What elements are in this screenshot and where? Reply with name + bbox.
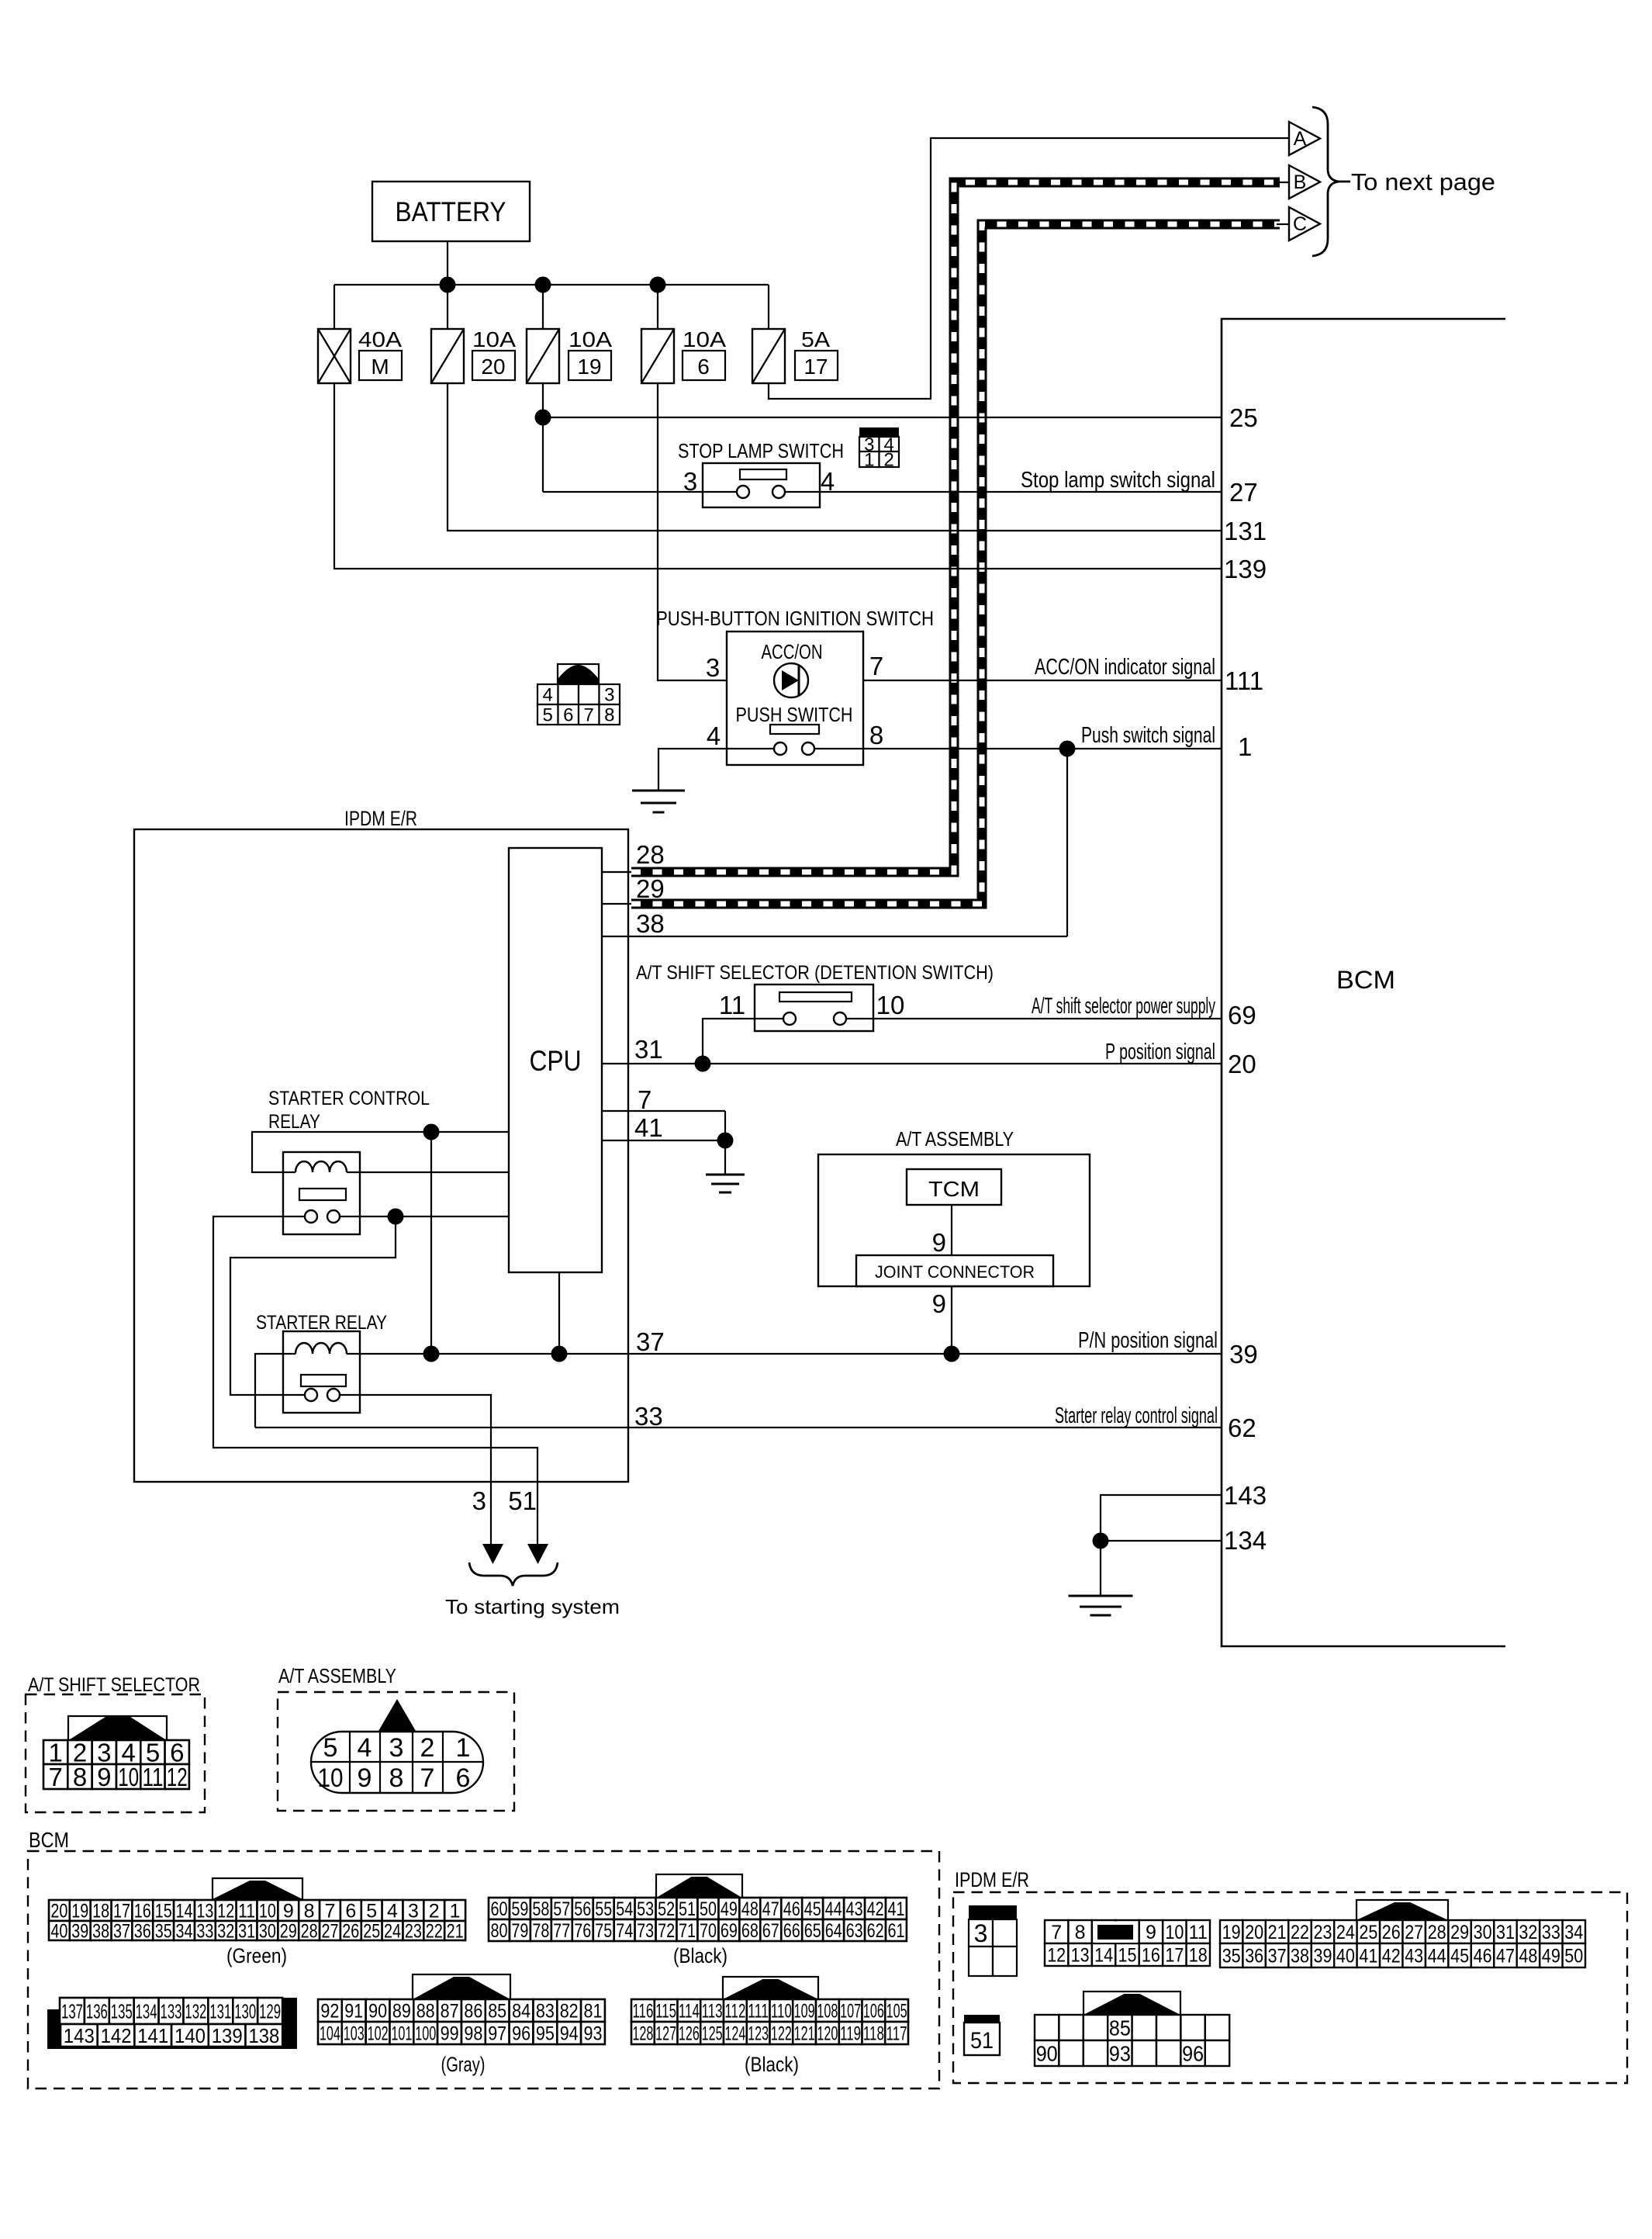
wire contact to starter relay contact (230, 1216, 396, 1395)
wire battery bus (334, 284, 769, 285)
svg-text:128: 128 (632, 2023, 653, 2045)
svg-text:(Green): (Green) (226, 1944, 287, 1967)
svg-text:5: 5 (323, 1733, 338, 1763)
svg-text:65: 65 (804, 1920, 821, 1942)
svg-text:9: 9 (358, 1763, 372, 1793)
svg-text:29: 29 (1450, 1922, 1469, 1943)
svg-text:RELAY: RELAY (268, 1111, 320, 1133)
BCM box (1222, 319, 1505, 1646)
svg-text:3: 3 (389, 1733, 404, 1763)
svg-text:1: 1 (456, 1733, 471, 1763)
svg-text:17: 17 (1165, 1945, 1184, 1967)
svg-text:58: 58 (532, 1898, 549, 1920)
svg-text:36: 36 (134, 1921, 151, 1943)
brace to starting system (469, 1562, 558, 1586)
svg-text:A/T ASSEMBLY: A/T ASSEMBLY (278, 1664, 396, 1687)
svg-text:JOINT CONNECTOR: JOINT CONNECTOR (875, 1262, 1035, 1282)
svg-text:36: 36 (1245, 1946, 1263, 1967)
svg-text:4: 4 (387, 1901, 398, 1922)
svg-text:54: 54 (616, 1898, 633, 1920)
svg-text:7: 7 (49, 1763, 63, 1791)
svg-text:93: 93 (584, 2023, 603, 2045)
svg-text:31: 31 (238, 1921, 255, 1943)
svg-text:A/T SHIFT SELECTOR (DETENTION: A/T SHIFT SELECTOR (DETENTION SWITCH) (636, 962, 994, 984)
svg-text:39: 39 (1314, 1946, 1332, 1967)
svg-text:10: 10 (259, 1901, 276, 1922)
wire joint connector pin 9 to wire 37 (951, 1286, 952, 1354)
svg-text:Starter relay control signal: Starter relay control signal (1055, 1403, 1218, 1428)
svg-text:106: 106 (863, 2001, 884, 2023)
svg-text:38: 38 (636, 909, 665, 938)
TCM box (907, 1169, 1001, 1205)
junction dot P position wire (695, 1056, 711, 1072)
svg-text:115: 115 (655, 2001, 676, 2023)
svg-text:37: 37 (1268, 1946, 1287, 1967)
svg-text:40: 40 (50, 1921, 67, 1943)
svg-text:19: 19 (577, 355, 601, 379)
wire fuse 17 to triangle A (769, 138, 1289, 399)
svg-text:25: 25 (1229, 403, 1258, 432)
svg-text:P position signal: P position signal (1105, 1040, 1215, 1064)
svg-text:139: 139 (1224, 555, 1267, 583)
svg-text:29: 29 (280, 1921, 297, 1943)
svg-text:18: 18 (92, 1901, 109, 1922)
svg-text:63: 63 (846, 1920, 863, 1942)
svg-text:BCM: BCM (29, 1828, 69, 1852)
svg-text:9: 9 (283, 1901, 294, 1922)
svg-text:22: 22 (1291, 1922, 1309, 1943)
svg-text:3: 3 (604, 685, 614, 706)
svg-text:118: 118 (863, 2023, 884, 2045)
svg-text:46: 46 (1474, 1946, 1492, 1967)
wire coil left to CPU (252, 1132, 509, 1172)
svg-text:124: 124 (724, 2023, 745, 2045)
svg-text:32: 32 (1519, 1922, 1537, 1943)
svg-text:(Black): (Black) (745, 2053, 799, 2076)
svg-text:28: 28 (1428, 1922, 1446, 1943)
wire fuse19 to stop lamp switch pin 3 (543, 491, 703, 493)
svg-text:113: 113 (702, 2001, 723, 2023)
svg-text:37: 37 (636, 1327, 665, 1356)
svg-text:85: 85 (488, 2001, 506, 2023)
wire fuse M to BCM pin 139 (334, 383, 1222, 569)
svg-text:64: 64 (825, 1920, 842, 1942)
svg-text:25: 25 (1359, 1922, 1377, 1943)
svg-text:40: 40 (1336, 1946, 1355, 1967)
svg-text:55: 55 (595, 1898, 612, 1920)
svg-text:To starting system: To starting system (445, 1595, 620, 1618)
svg-text:130: 130 (234, 1999, 256, 2023)
svg-text:62: 62 (1228, 1414, 1256, 1442)
svg-text:95: 95 (536, 2023, 555, 2045)
svg-text:7: 7 (325, 1901, 336, 1922)
svg-text:3: 3 (683, 467, 697, 496)
svg-text:75: 75 (595, 1920, 612, 1942)
svg-text:10A: 10A (569, 327, 612, 351)
svg-text:96: 96 (512, 2023, 531, 2045)
svg-text:25: 25 (363, 1921, 380, 1943)
svg-text:11: 11 (238, 1901, 255, 1922)
connector keyway triangle (378, 1699, 416, 1731)
svg-text:33: 33 (196, 1921, 213, 1943)
svg-text:28: 28 (636, 840, 665, 869)
svg-text:8: 8 (604, 705, 614, 726)
junction dot 7/41 (717, 1133, 734, 1149)
svg-text:5: 5 (366, 1901, 377, 1922)
svg-text:143: 143 (1224, 1481, 1267, 1510)
push switch contact bar (770, 725, 819, 734)
junction dot fuse19/pin25 (535, 410, 551, 426)
A/T assembly connector stadium (311, 1732, 483, 1793)
svg-text:41: 41 (634, 1113, 663, 1142)
wire bus to fuse 19 (542, 285, 544, 329)
svg-text:B: B (1294, 171, 1307, 193)
ground IPDM logic (706, 1174, 745, 1176)
svg-text:62: 62 (867, 1920, 884, 1942)
svg-text:66: 66 (783, 1920, 800, 1942)
svg-text:TCM: TCM (928, 1177, 980, 1201)
svg-text:8: 8 (869, 721, 883, 749)
svg-text:100: 100 (415, 2023, 436, 2045)
svg-text:137: 137 (61, 1999, 83, 2023)
svg-text:48: 48 (1519, 1946, 1537, 1967)
svg-text:49: 49 (721, 1898, 738, 1920)
svg-text:111: 111 (748, 2001, 769, 2023)
connector M101 ignition switch (558, 664, 599, 684)
IPDM connector 19-50 keyway (1357, 1900, 1448, 1920)
svg-text:33: 33 (634, 1402, 663, 1431)
svg-text:72: 72 (658, 1920, 675, 1942)
svg-text:44: 44 (1428, 1946, 1446, 1967)
svg-text:94: 94 (560, 2023, 579, 2045)
svg-text:15: 15 (1118, 1945, 1137, 1967)
BCM gray connector keyway (413, 1974, 510, 1999)
svg-text:29: 29 (636, 874, 665, 903)
wire BCM 134 to ground (1101, 1540, 1222, 1542)
ground BCM (1069, 1595, 1133, 1597)
wire coil right to CPU (347, 1171, 509, 1173)
wire stop lamp internal left (703, 491, 743, 493)
svg-text:99: 99 (441, 2023, 459, 2045)
IPDM pin 41 wire (602, 1140, 725, 1141)
svg-text:11: 11 (143, 1763, 164, 1791)
ACC/ON indicator diode (774, 663, 808, 697)
svg-text:35: 35 (155, 1921, 172, 1943)
detention switch contacts (783, 1012, 796, 1025)
svg-text:To next page: To next page (1351, 168, 1495, 196)
svg-text:86: 86 (464, 2001, 482, 2023)
starter control relay contacts (305, 1210, 317, 1223)
svg-text:16: 16 (134, 1901, 151, 1922)
push switch contacts (774, 742, 786, 755)
starter control relay coil (295, 1161, 347, 1172)
svg-text:1: 1 (864, 450, 874, 471)
svg-text:31: 31 (1496, 1922, 1515, 1943)
svg-text:13: 13 (196, 1901, 213, 1922)
svg-text:12: 12 (1047, 1945, 1066, 1967)
svg-text:2: 2 (884, 450, 894, 471)
svg-text:8: 8 (389, 1763, 404, 1793)
wire 33/62 starter relay control (255, 1427, 1222, 1428)
junction dot bus-fuse20 (440, 277, 456, 293)
svg-text:43: 43 (1405, 1946, 1423, 1967)
svg-text:10: 10 (118, 1763, 139, 1791)
starter relay armature (301, 1375, 346, 1386)
wire fuse 20 to BCM pin 131 (448, 383, 1222, 531)
svg-text:51: 51 (679, 1898, 696, 1920)
wire junction A to wire 37 (430, 1132, 432, 1354)
wire bus to fuse 20 (447, 285, 448, 329)
svg-text:49: 49 (1542, 1946, 1560, 1967)
svg-text:76: 76 (574, 1920, 591, 1942)
svg-text:3: 3 (706, 653, 720, 682)
wire ignition 8 to BCM 1 (808, 748, 1222, 749)
svg-text:143: 143 (64, 2024, 95, 2047)
fuse 5A 17 (752, 329, 785, 383)
svg-text:28: 28 (301, 1921, 318, 1943)
wire TCM to joint connector pin 9 (951, 1205, 952, 1255)
svg-text:12: 12 (167, 1763, 188, 1791)
svg-text:90: 90 (1036, 2042, 1058, 2066)
svg-text:7: 7 (869, 652, 883, 680)
svg-text:CPU: CPU (530, 1045, 582, 1077)
svg-text:38: 38 (1291, 1946, 1309, 1967)
svg-text:92: 92 (320, 2001, 339, 2023)
svg-text:68: 68 (741, 1920, 759, 1942)
svg-text:45: 45 (804, 1898, 821, 1920)
svg-text:STOP LAMP SWITCH: STOP LAMP SWITCH (678, 439, 844, 462)
svg-text:109: 109 (794, 2001, 815, 2023)
svg-text:139: 139 (212, 2024, 243, 2047)
svg-text:67: 67 (762, 1920, 779, 1942)
svg-text:107: 107 (840, 2001, 861, 2023)
svg-text:22: 22 (426, 1921, 443, 1943)
wire ignition 7 to BCM 111 (863, 680, 1222, 681)
svg-text:60: 60 (491, 1898, 508, 1920)
svg-text:17: 17 (113, 1901, 130, 1922)
svg-text:5A: 5A (801, 327, 830, 351)
IPDM pin 7 wire (602, 1110, 725, 1112)
svg-text:Push switch signal: Push switch signal (1081, 723, 1215, 748)
svg-text:91: 91 (344, 2001, 363, 2023)
svg-text:136: 136 (86, 1999, 108, 2023)
connector grid stop lamp switch 3-4/1-2 (859, 427, 899, 437)
wire ignition 4 internal (727, 748, 780, 749)
svg-text:32: 32 (217, 1921, 234, 1943)
svg-text:88: 88 (416, 2001, 435, 2023)
svg-text:111: 111 (1225, 666, 1263, 695)
svg-text:133: 133 (161, 1999, 182, 2023)
svg-text:126: 126 (679, 2023, 700, 2045)
svg-text:138: 138 (248, 2024, 279, 2047)
triangle connector C (1289, 207, 1320, 241)
wire down to ground (1100, 1541, 1101, 1596)
IPDM pin 38 wire (602, 936, 1067, 937)
svg-text:A/T SHIFT SELECTOR: A/T SHIFT SELECTOR (28, 1674, 200, 1696)
svg-text:59: 59 (511, 1898, 528, 1920)
wire fuse 19 down (542, 383, 544, 492)
BCM black connector keyway (656, 1874, 742, 1898)
svg-text:101: 101 (391, 2023, 412, 2045)
svg-text:8: 8 (304, 1901, 315, 1922)
wire bus to fuse M (334, 285, 335, 329)
wire stop lamp switch to BCM pin 27 (779, 491, 1222, 493)
svg-text:PUSH-BUTTON IGNITION SWITCH: PUSH-BUTTON IGNITION SWITCH (656, 607, 934, 630)
svg-text:ACC/ON indicator signal: ACC/ON indicator signal (1035, 655, 1215, 680)
checkered wire C (IPDM 29 to next page) (631, 224, 1280, 904)
wire detention 10 to BCM 69 (840, 1018, 1222, 1019)
wire bus to fuse 6 (657, 285, 658, 329)
IPDM connector 7-18 (1045, 1920, 1068, 1943)
svg-text:104: 104 (320, 2023, 340, 2045)
svg-text:51: 51 (970, 2028, 994, 2054)
svg-text:23: 23 (405, 1921, 422, 1943)
svg-text:BATTERY: BATTERY (396, 197, 506, 227)
svg-text:21: 21 (447, 1921, 464, 1943)
svg-text:8: 8 (1075, 1922, 1086, 1943)
svg-text:IPDM E/R: IPDM E/R (344, 807, 417, 830)
triangle connector A (1289, 122, 1320, 155)
svg-text:35: 35 (1222, 1946, 1241, 1967)
CPU box (509, 848, 602, 1272)
svg-text:21: 21 (1268, 1922, 1287, 1943)
svg-text:12: 12 (217, 1901, 234, 1922)
svg-text:53: 53 (637, 1898, 654, 1920)
svg-text:19: 19 (71, 1901, 88, 1922)
junction dot bus-fuse19 (535, 277, 551, 293)
svg-text:41: 41 (1359, 1946, 1377, 1967)
svg-text:8: 8 (73, 1763, 87, 1791)
svg-text:134: 134 (1224, 1526, 1267, 1555)
svg-text:14: 14 (1094, 1945, 1113, 1967)
svg-text:30: 30 (259, 1921, 276, 1943)
svg-text:116: 116 (632, 2001, 653, 2023)
svg-text:37: 37 (113, 1921, 130, 1943)
checkered wire B (IPDM 28 to next page) (631, 182, 1280, 872)
svg-text:4: 4 (358, 1733, 372, 1763)
svg-text:19: 19 (1222, 1922, 1241, 1943)
svg-text:31: 31 (634, 1035, 663, 1064)
svg-text:73: 73 (637, 1920, 654, 1942)
junction dot bus-fuse6 (650, 277, 666, 293)
svg-text:14: 14 (176, 1901, 193, 1922)
svg-text:57: 57 (553, 1898, 570, 1920)
svg-text:114: 114 (679, 2001, 700, 2023)
svg-text:24: 24 (1336, 1922, 1355, 1943)
svg-text:129: 129 (259, 1999, 281, 2023)
svg-text:9: 9 (1146, 1922, 1156, 1943)
svg-text:103: 103 (344, 2023, 365, 2045)
svg-text:102: 102 (368, 2023, 389, 2045)
wire 7/41 join (724, 1111, 726, 1140)
wire dot to IPDM 38 (1066, 749, 1068, 936)
svg-text:69: 69 (721, 1920, 738, 1942)
wire battery to bus (447, 241, 448, 285)
wire stub into triangle B (1277, 182, 1289, 183)
junction dot coil drive wire (423, 1124, 440, 1140)
fusible link 40A M (318, 329, 351, 383)
starter relay coil (295, 1343, 347, 1354)
fuse 10A 20 (431, 329, 464, 383)
svg-text:51: 51 (508, 1486, 537, 1515)
svg-text:BCM: BCM (1336, 966, 1395, 994)
svg-text:84: 84 (512, 2001, 531, 2023)
svg-text:7: 7 (638, 1085, 651, 1114)
IPDM pin 29 stub (602, 903, 631, 905)
svg-text:3: 3 (472, 1486, 486, 1515)
starter relay contacts (305, 1389, 317, 1401)
svg-text:6: 6 (563, 705, 573, 726)
svg-text:10: 10 (876, 991, 905, 1019)
svg-text:(Gray): (Gray) (441, 2053, 486, 2076)
junction dot 37 b (551, 1346, 568, 1362)
IPDM connector 51 (964, 2015, 1000, 2023)
svg-text:6: 6 (345, 1901, 356, 1922)
wire contact left to output 51 (213, 1216, 537, 1545)
svg-text:80: 80 (491, 1920, 508, 1942)
svg-text:81: 81 (584, 2001, 603, 2023)
svg-text:141: 141 (137, 2024, 168, 2047)
battery (372, 182, 530, 241)
svg-text:M: M (371, 355, 389, 379)
wire detention 11 to P position wire (703, 1019, 790, 1064)
svg-text:20: 20 (481, 355, 505, 379)
svg-text:77: 77 (553, 1920, 570, 1942)
svg-text:33: 33 (1542, 1922, 1560, 1943)
svg-text:135: 135 (111, 1999, 133, 2023)
svg-text:17: 17 (804, 355, 828, 379)
svg-text:85: 85 (1109, 2016, 1131, 2040)
svg-text:125: 125 (702, 2023, 723, 2045)
fuse 10A 19 (527, 329, 559, 383)
svg-text:98: 98 (464, 2023, 482, 2045)
svg-text:27: 27 (322, 1921, 339, 1943)
svg-text:26: 26 (342, 1921, 359, 1943)
arrow output 3 (482, 1544, 503, 1564)
svg-text:10A: 10A (683, 327, 726, 351)
svg-text:79: 79 (511, 1920, 528, 1942)
svg-text:112: 112 (724, 2001, 745, 2023)
svg-text:142: 142 (101, 2024, 132, 2047)
junction dot P/N position (944, 1346, 960, 1362)
BCM black connector M19 (489, 1898, 510, 1919)
IPDM starter relay connector keyway (1083, 1992, 1180, 2015)
wire 37 P/N position (347, 1353, 1222, 1355)
svg-text:97: 97 (488, 2023, 506, 2045)
svg-text:9: 9 (97, 1763, 111, 1791)
svg-text:89: 89 (392, 2001, 411, 2023)
svg-text:121: 121 (794, 2023, 815, 2045)
svg-text:78: 78 (532, 1920, 549, 1942)
svg-text:1: 1 (1238, 732, 1252, 761)
svg-text:(Black): (Black) (673, 1944, 728, 1967)
svg-text:2: 2 (420, 1733, 435, 1763)
ground ignition switch (632, 790, 685, 792)
svg-text:123: 123 (748, 2023, 769, 2045)
svg-text:A: A (1294, 128, 1307, 150)
junction dot 37 a (423, 1346, 440, 1362)
svg-text:7: 7 (420, 1763, 435, 1793)
svg-text:93: 93 (1109, 2042, 1131, 2066)
svg-text:127: 127 (655, 2023, 676, 2045)
IPDM pin 31 wire to BCM 20 (602, 1063, 1222, 1064)
svg-text:9: 9 (932, 1228, 946, 1257)
wire stub into triangle C (1277, 223, 1289, 225)
svg-text:C: C (1293, 213, 1307, 235)
wire fuse 6 to ignition switch pin 3 (658, 383, 727, 680)
svg-text:52: 52 (658, 1898, 675, 1920)
svg-text:110: 110 (771, 2001, 792, 2023)
